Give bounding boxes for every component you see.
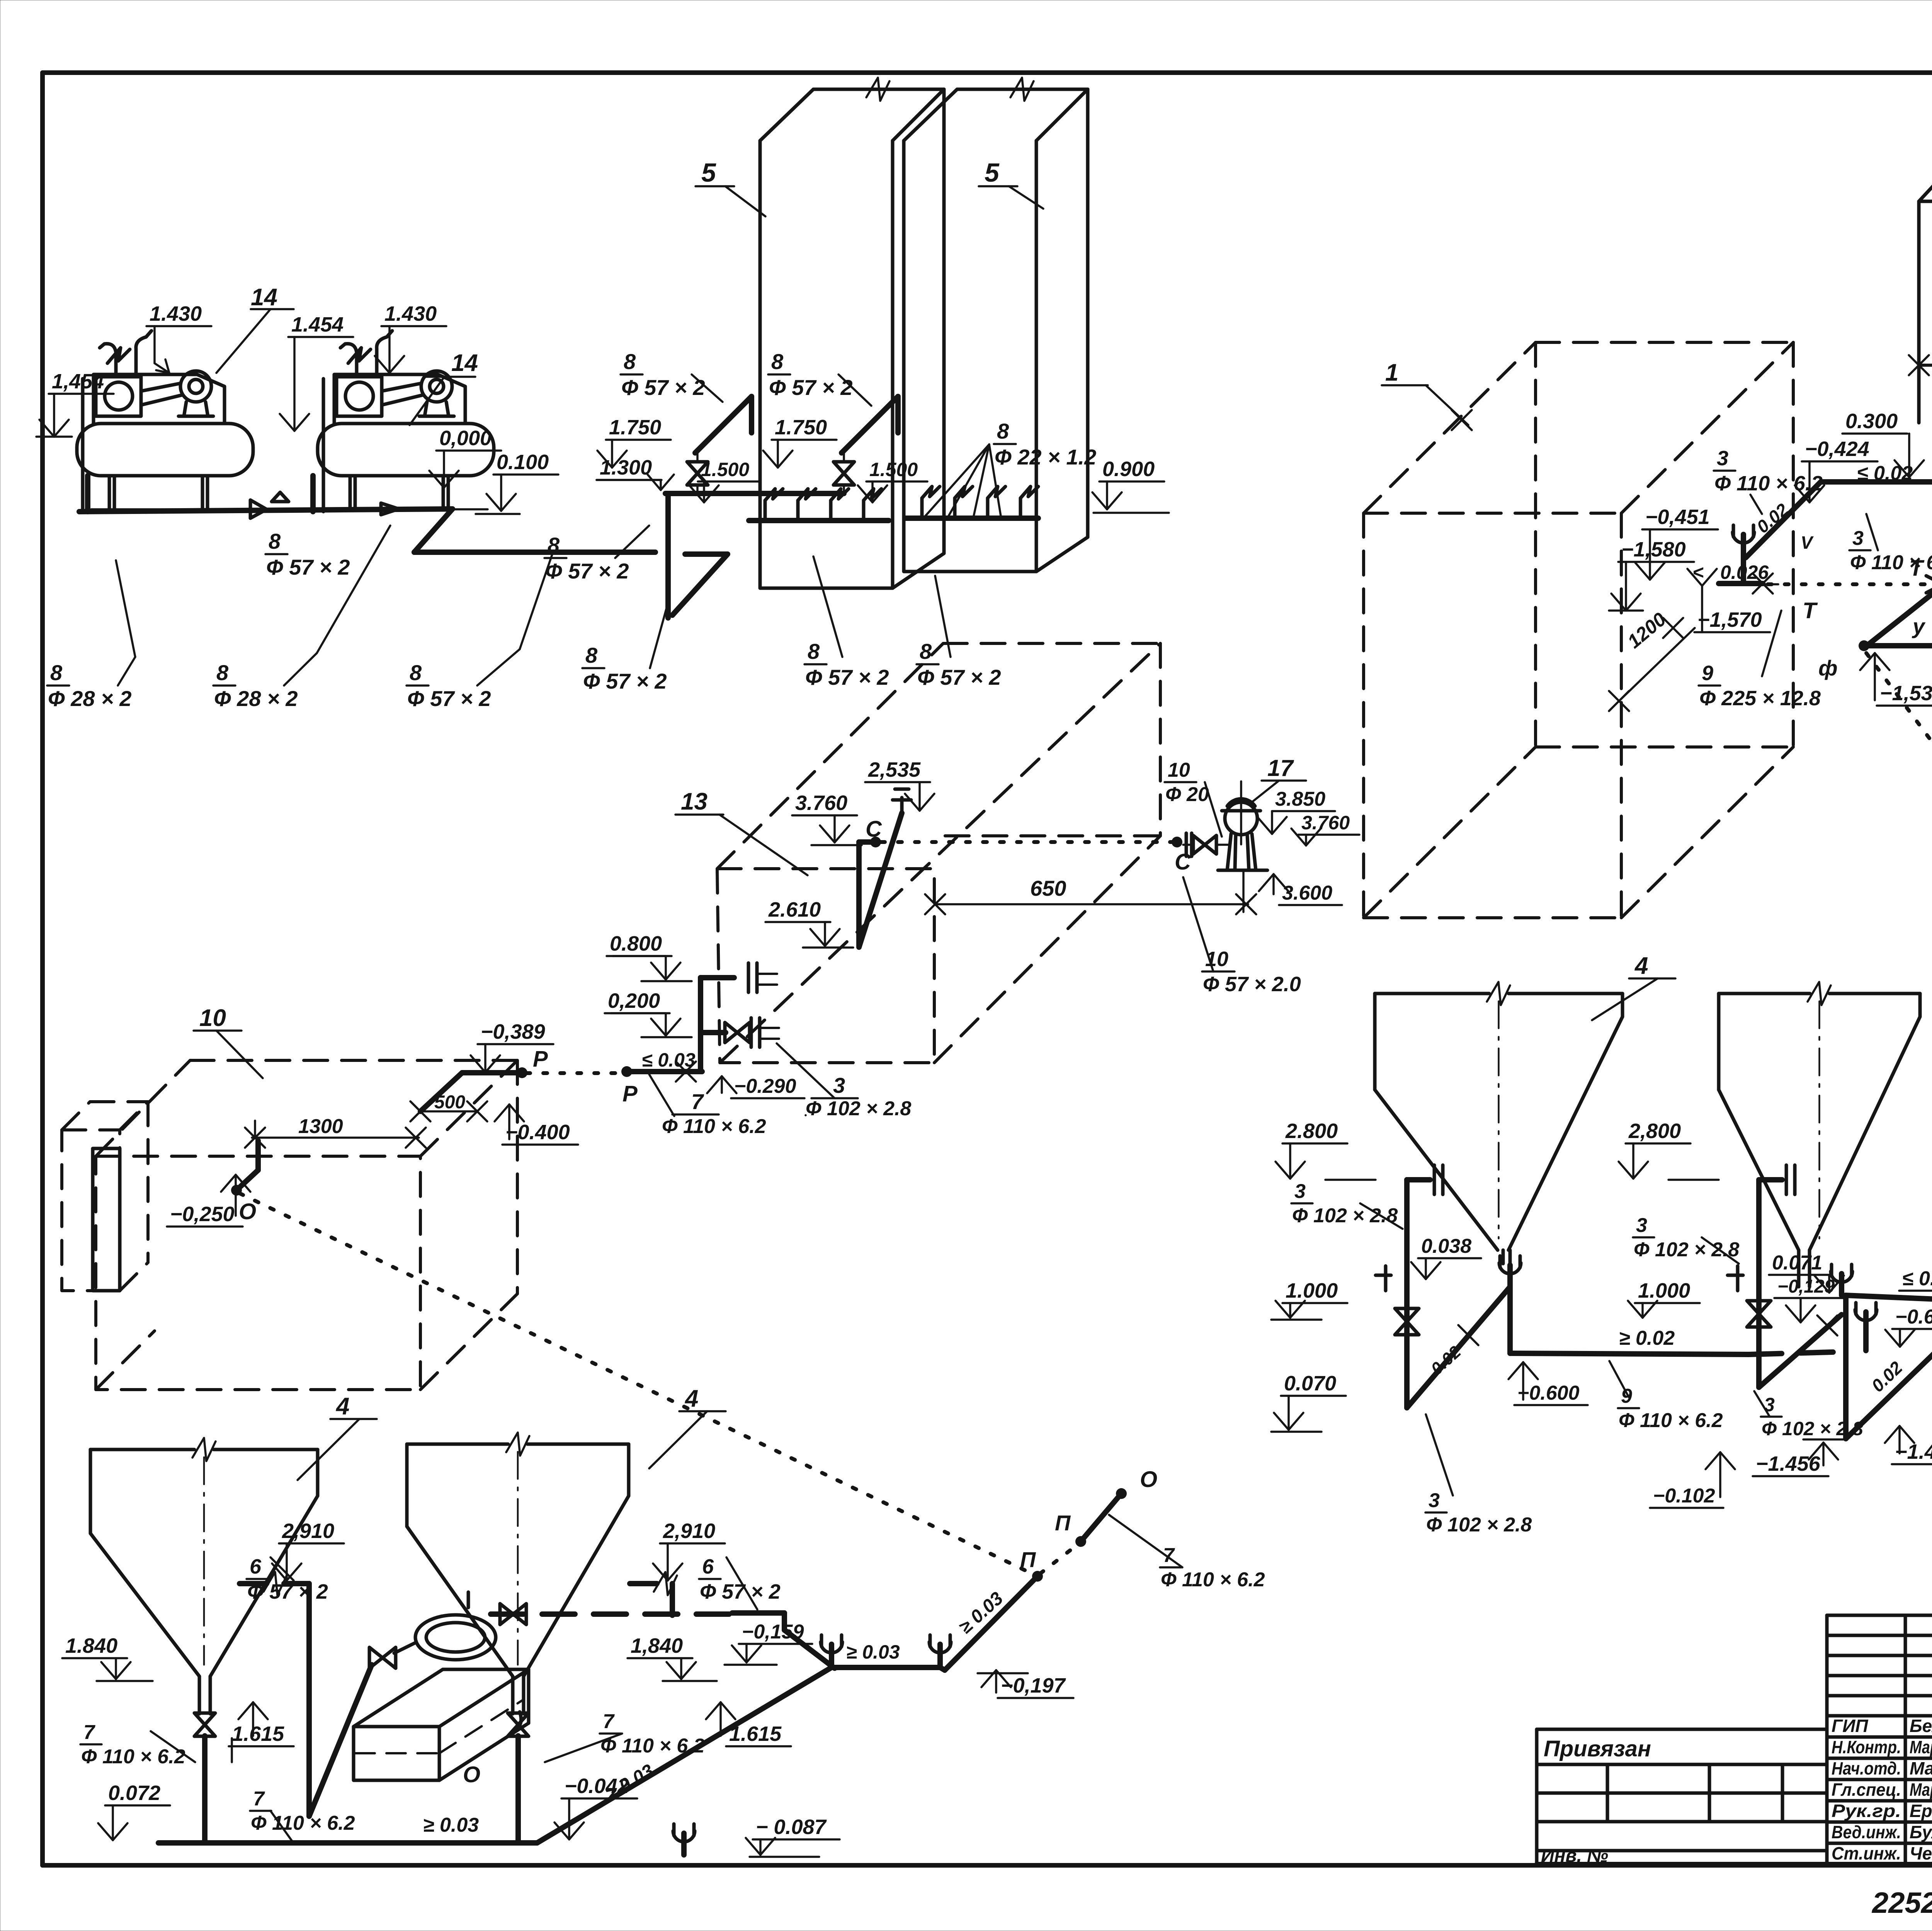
svg-text:ГИП: ГИП bbox=[1832, 1716, 1868, 1736]
svg-text:3.600: 3.600 bbox=[1282, 882, 1332, 904]
svg-text:Марионков: Марионков bbox=[1910, 1780, 1932, 1800]
svg-text:7: 7 bbox=[253, 1788, 265, 1810]
svg-text:10: 10 bbox=[1168, 759, 1190, 781]
svg-text:−0,451: −0,451 bbox=[1645, 505, 1710, 529]
svg-text:−1,530: −1,530 bbox=[1880, 682, 1932, 705]
svg-text:О: О bbox=[1140, 1467, 1157, 1492]
svg-text:−0,159: −0,159 bbox=[742, 1621, 804, 1643]
svg-text:ф: ф bbox=[1818, 656, 1838, 680]
svg-text:Чертков: Чертков bbox=[1910, 1843, 1932, 1863]
svg-text:3: 3 bbox=[1636, 1214, 1647, 1237]
svg-text:3: 3 bbox=[833, 1073, 845, 1097]
svg-text:Ф 110 × 6.2: Ф 110 × 6.2 bbox=[1714, 472, 1823, 495]
svg-text:13: 13 bbox=[681, 788, 707, 815]
svg-text:О: О bbox=[463, 1762, 480, 1787]
svg-text:1.615: 1.615 bbox=[232, 1722, 284, 1746]
svg-text:−0,389: −0,389 bbox=[481, 1020, 545, 1043]
svg-text:Ф 57 × 2: Ф 57 × 2 bbox=[407, 686, 491, 711]
svg-text:Ф 110 × 6.2: Ф 110 × 6.2 bbox=[1161, 1569, 1265, 1591]
svg-text:8: 8 bbox=[269, 529, 281, 553]
svg-text:0,200: 0,200 bbox=[608, 989, 660, 1012]
svg-text:0.900: 0.900 bbox=[1102, 458, 1155, 481]
svg-text:≤ 0.02: ≤ 0.02 bbox=[1857, 462, 1913, 485]
svg-text:1.000: 1.000 bbox=[1286, 1279, 1338, 1302]
svg-text:5: 5 bbox=[701, 158, 716, 187]
svg-text:Ермакова: Ермакова bbox=[1910, 1801, 1932, 1821]
svg-text:Ф 57 × 2: Ф 57 × 2 bbox=[621, 375, 705, 400]
svg-text:Ф 110 × 6.2: Ф 110 × 6.2 bbox=[600, 1735, 705, 1757]
svg-text:1.430: 1.430 bbox=[150, 302, 202, 325]
svg-text:10: 10 bbox=[199, 1005, 226, 1031]
svg-text:Р: Р bbox=[622, 1081, 638, 1106]
svg-text:С: С bbox=[1175, 849, 1191, 874]
svg-text:Т: Т bbox=[1909, 556, 1925, 581]
svg-text:9: 9 bbox=[1702, 662, 1713, 685]
svg-text:3.760: 3.760 bbox=[795, 791, 847, 815]
svg-text:0.02: 0.02 bbox=[1867, 1357, 1906, 1396]
svg-text:≤ 0.02: ≤ 0.02 bbox=[1902, 1267, 1932, 1290]
svg-text:4: 4 bbox=[684, 1385, 698, 1412]
svg-text:−0.600: −0.600 bbox=[1517, 1382, 1580, 1404]
svg-text:V: V bbox=[1801, 533, 1814, 553]
svg-text:1.750: 1.750 bbox=[775, 416, 827, 439]
svg-text:7: 7 bbox=[83, 1721, 95, 1744]
svg-text:8: 8 bbox=[808, 639, 820, 664]
svg-text:Рук.гр.: Рук.гр. bbox=[1832, 1801, 1901, 1821]
svg-text:0.100: 0.100 bbox=[497, 451, 549, 474]
svg-text:≥ 0.03: ≥ 0.03 bbox=[846, 1641, 900, 1663]
svg-text:500: 500 bbox=[434, 1092, 465, 1113]
svg-text:8: 8 bbox=[216, 660, 229, 685]
svg-text:Ф 57 × 2: Ф 57 × 2 bbox=[247, 1580, 328, 1603]
svg-text:14: 14 bbox=[451, 350, 478, 376]
svg-text:Ф 102 × 2.8: Ф 102 × 2.8 bbox=[1634, 1239, 1739, 1261]
svg-text:Ф 28 × 2: Ф 28 × 2 bbox=[214, 686, 298, 711]
svg-text:С: С bbox=[866, 817, 882, 842]
svg-text:Ф 110 × 6.2: Ф 110 × 6.2 bbox=[81, 1746, 185, 1768]
svg-text:1.300: 1.300 bbox=[600, 456, 652, 479]
svg-text:22529-02: 22529-02 bbox=[1871, 1887, 1932, 1919]
svg-text:6: 6 bbox=[702, 1555, 714, 1578]
svg-text:0.026: 0.026 bbox=[1720, 561, 1769, 583]
svg-text:1.000: 1.000 bbox=[1638, 1279, 1690, 1302]
svg-text:−1,580: −1,580 bbox=[1621, 538, 1686, 561]
svg-text:−0,129: −0,129 bbox=[1777, 1276, 1835, 1297]
svg-text:Ф 57 × 2: Ф 57 × 2 bbox=[700, 1580, 781, 1603]
svg-text:1.430: 1.430 bbox=[384, 302, 437, 325]
svg-text:3: 3 bbox=[1294, 1180, 1306, 1203]
svg-text:Гл.спец.: Гл.спец. bbox=[1832, 1780, 1901, 1800]
svg-text:1,840: 1,840 bbox=[631, 1634, 683, 1657]
svg-text:0.038: 0.038 bbox=[1421, 1235, 1471, 1257]
svg-text:П: П bbox=[1020, 1547, 1036, 1572]
svg-text:Ф 57 × 2: Ф 57 × 2 bbox=[917, 665, 1001, 689]
svg-text:3.850: 3.850 bbox=[1275, 788, 1325, 810]
svg-text:0.070: 0.070 bbox=[1284, 1372, 1336, 1395]
svg-text:≤ 0.03: ≤ 0.03 bbox=[642, 1049, 696, 1071]
svg-text:1.454: 1.454 bbox=[291, 313, 344, 336]
svg-text:П: П bbox=[1055, 1511, 1071, 1535]
svg-text:2,910: 2,910 bbox=[663, 1519, 715, 1543]
svg-text:Вед.инж.: Вед.инж. bbox=[1832, 1822, 1901, 1842]
svg-text:1.615: 1.615 bbox=[729, 1722, 782, 1746]
svg-text:Ф 110 × 6.2: Ф 110 × 6.2 bbox=[251, 1812, 355, 1834]
svg-text:2.800: 2.800 bbox=[1285, 1119, 1338, 1143]
svg-text:Н.Контр.: Н.Контр. bbox=[1832, 1737, 1901, 1757]
svg-text:Ф 110 × 6.2: Ф 110 × 6.2 bbox=[1619, 1409, 1723, 1432]
svg-text:3: 3 bbox=[1764, 1394, 1775, 1415]
svg-text:8: 8 bbox=[410, 660, 422, 685]
svg-text:650: 650 bbox=[1030, 876, 1066, 900]
svg-text:7: 7 bbox=[603, 1710, 615, 1733]
svg-text:Т: Т bbox=[1803, 598, 1818, 623]
svg-text:2.610: 2.610 bbox=[768, 898, 821, 921]
svg-text:0.300: 0.300 bbox=[1845, 410, 1898, 433]
svg-text:4: 4 bbox=[335, 1393, 349, 1420]
svg-text:6: 6 bbox=[250, 1555, 262, 1578]
svg-text:≥ 0.03: ≥ 0.03 bbox=[423, 1814, 479, 1836]
svg-text:Марионков: Марионков bbox=[1910, 1737, 1932, 1757]
svg-text:2,800: 2,800 bbox=[1628, 1119, 1681, 1143]
svg-text:Ф 57 × 2: Ф 57 × 2 bbox=[583, 669, 667, 693]
svg-text:8: 8 bbox=[771, 349, 784, 374]
svg-text:0.800: 0.800 bbox=[610, 932, 662, 955]
svg-text:8: 8 bbox=[997, 419, 1009, 443]
svg-text:Ф 57 × 2: Ф 57 × 2 bbox=[769, 375, 853, 400]
svg-text:0,000: 0,000 bbox=[439, 427, 492, 450]
svg-text:1.840: 1.840 bbox=[65, 1634, 117, 1657]
svg-text:0.071: 0.071 bbox=[1772, 1252, 1822, 1274]
svg-text:Ф 57 × 2.0: Ф 57 × 2.0 bbox=[1203, 973, 1301, 996]
svg-text:−1,570: −1,570 bbox=[1697, 608, 1762, 631]
svg-text:Ст.инж.: Ст.инж. bbox=[1832, 1843, 1901, 1863]
svg-text:9: 9 bbox=[1621, 1385, 1632, 1407]
svg-text:3: 3 bbox=[1429, 1489, 1440, 1512]
svg-text:8: 8 bbox=[624, 349, 636, 374]
svg-text:Привязан: Привязан bbox=[1544, 1736, 1651, 1761]
svg-text:Р: Р bbox=[533, 1046, 548, 1072]
svg-text:−0.400: −0.400 bbox=[505, 1121, 570, 1144]
svg-text:1,454: 1,454 bbox=[52, 370, 104, 393]
svg-text:Нач.отд.: Нач.отд. bbox=[1832, 1758, 1901, 1778]
svg-text:− 0.087: − 0.087 bbox=[756, 1815, 827, 1839]
svg-text:Ф 102 × 2.8: Ф 102 × 2.8 bbox=[1762, 1418, 1863, 1439]
svg-text:Ф 57 × 2: Ф 57 × 2 bbox=[266, 555, 350, 579]
svg-text:5: 5 bbox=[985, 158, 1000, 187]
svg-text:0.072: 0.072 bbox=[108, 1781, 160, 1805]
svg-text:Ф 28 × 2: Ф 28 × 2 bbox=[48, 686, 132, 711]
svg-text:8: 8 bbox=[585, 643, 598, 667]
svg-text:−0,250: −0,250 bbox=[170, 1203, 235, 1226]
svg-text:1: 1 bbox=[1385, 359, 1398, 386]
svg-text:1.500: 1.500 bbox=[869, 459, 918, 480]
svg-text:−0.290: −0.290 bbox=[734, 1075, 796, 1097]
svg-text:1200: 1200 bbox=[1623, 608, 1670, 653]
svg-text:1.750: 1.750 bbox=[609, 416, 661, 439]
svg-text:2,535: 2,535 bbox=[868, 758, 921, 781]
svg-text:1.500: 1.500 bbox=[701, 459, 749, 480]
svg-text:3: 3 bbox=[1717, 447, 1728, 470]
svg-text:Ф 57 × 2: Ф 57 × 2 bbox=[545, 559, 629, 583]
svg-text:−0,424: −0,424 bbox=[1805, 437, 1869, 461]
svg-text:−0.676: −0.676 bbox=[1895, 1306, 1932, 1328]
svg-text:Мартынов: Мартынов bbox=[1910, 1758, 1932, 1778]
svg-text:Белоус: Белоус bbox=[1910, 1716, 1932, 1736]
svg-text:8: 8 bbox=[548, 533, 560, 557]
svg-text:Ф 57 × 2: Ф 57 × 2 bbox=[805, 665, 889, 689]
svg-text:Ф 22 × 1.2: Ф 22 × 1.2 bbox=[995, 445, 1096, 469]
svg-text:8: 8 bbox=[50, 660, 63, 685]
svg-text:Ф 102 × 2.8: Ф 102 × 2.8 bbox=[1426, 1514, 1532, 1536]
svg-text:8: 8 bbox=[920, 639, 932, 664]
svg-text:17: 17 bbox=[1267, 755, 1294, 781]
svg-text:Ф 110 × 6.2: Ф 110 × 6.2 bbox=[662, 1115, 766, 1138]
svg-text:у: у bbox=[1912, 614, 1926, 638]
svg-text:Ф 102 × 2.8: Ф 102 × 2.8 bbox=[806, 1097, 911, 1120]
svg-text:≥ 0.02: ≥ 0.02 bbox=[1619, 1327, 1675, 1349]
svg-text:−0.102: −0.102 bbox=[1653, 1485, 1715, 1507]
svg-text:2,910: 2,910 bbox=[282, 1519, 334, 1543]
svg-text:Ф 20: Ф 20 bbox=[1165, 783, 1209, 806]
svg-text:Ф 225 × 12.8: Ф 225 × 12.8 bbox=[1699, 687, 1821, 710]
svg-text:3.760: 3.760 bbox=[1301, 812, 1350, 834]
svg-text:1300: 1300 bbox=[298, 1115, 343, 1138]
svg-text:4: 4 bbox=[1634, 953, 1648, 979]
svg-text:14: 14 bbox=[251, 284, 277, 311]
svg-text:О: О bbox=[239, 1199, 256, 1224]
svg-text:7: 7 bbox=[691, 1089, 704, 1114]
svg-text:3: 3 bbox=[1852, 527, 1864, 550]
svg-text:Булычева: Булычева bbox=[1910, 1822, 1932, 1842]
